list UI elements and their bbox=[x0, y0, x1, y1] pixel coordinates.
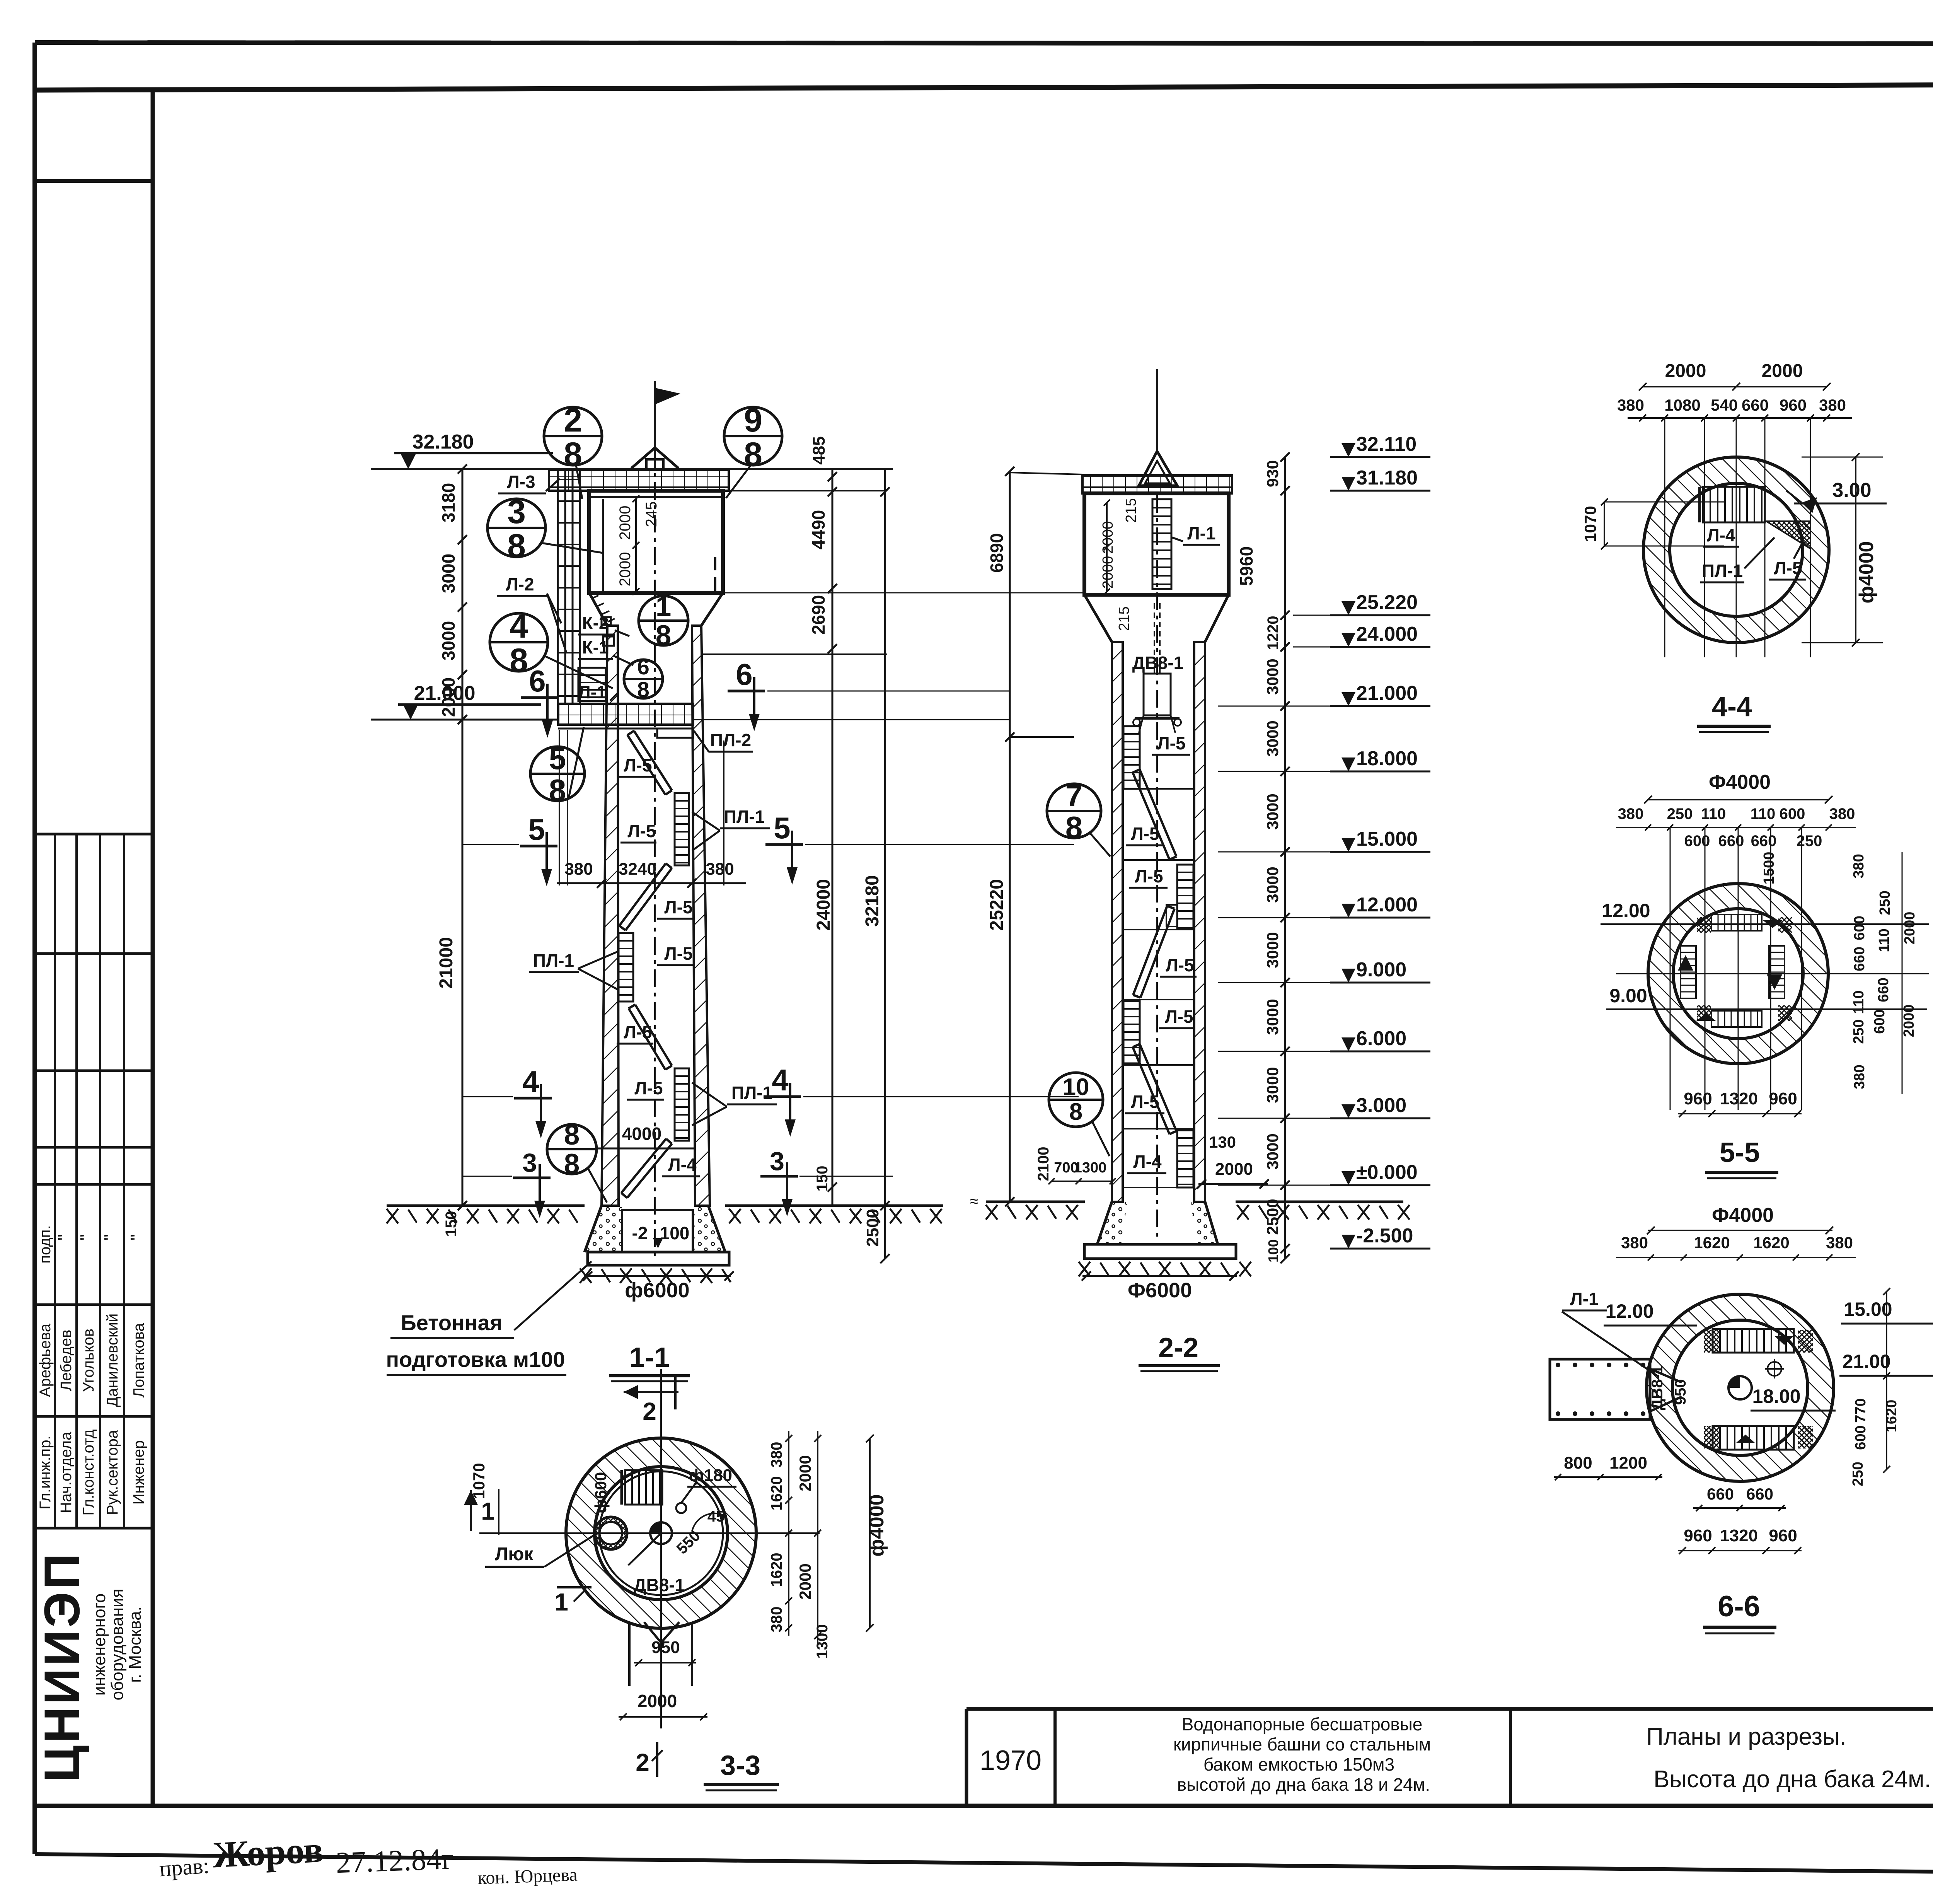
svg-text:25.220: 25.220 bbox=[1356, 591, 1418, 614]
svg-text:6890: 6890 bbox=[987, 533, 1007, 573]
svg-text:1300: 1300 bbox=[1074, 1160, 1107, 1176]
svg-text:930: 930 bbox=[1263, 460, 1282, 487]
svg-text:Л-5: Л-5 bbox=[1157, 733, 1185, 753]
svg-text:Ф4000: Ф4000 bbox=[1712, 1204, 1774, 1227]
svg-text:3.000: 3.000 bbox=[1356, 1094, 1406, 1117]
svg-text:32.180: 32.180 bbox=[412, 431, 474, 453]
svg-text:2000: 2000 bbox=[1215, 1160, 1253, 1179]
svg-text:1320: 1320 bbox=[1720, 1526, 1758, 1545]
svg-text:600: 600 bbox=[1780, 805, 1805, 822]
svg-text:±0.000: ±0.000 bbox=[1356, 1161, 1418, 1184]
svg-text:Л-2: Л-2 bbox=[506, 574, 534, 594]
svg-text:Л-5: Л-5 bbox=[624, 1022, 652, 1042]
svg-text:8: 8 bbox=[656, 620, 672, 651]
svg-text:215: 215 bbox=[1123, 498, 1139, 522]
svg-text:1: 1 bbox=[554, 1588, 568, 1616]
svg-text:660: 660 bbox=[1707, 1485, 1734, 1503]
svg-text:32.110: 32.110 bbox=[1356, 433, 1417, 456]
svg-text:1070: 1070 bbox=[1581, 506, 1599, 542]
svg-text:6: 6 bbox=[529, 664, 545, 698]
svg-text:Л-5: Л-5 bbox=[1131, 1092, 1159, 1112]
svg-text:1080: 1080 bbox=[1664, 396, 1700, 414]
svg-text:2000: 2000 bbox=[796, 1563, 814, 1599]
svg-text:": " bbox=[77, 1234, 97, 1240]
svg-text:3.00: 3.00 bbox=[1832, 479, 1871, 502]
svg-text:215: 215 bbox=[1116, 606, 1132, 631]
svg-text:ПЛ-1: ПЛ-1 bbox=[533, 950, 574, 971]
svg-text:24000: 24000 bbox=[813, 879, 834, 930]
svg-text:Гл.инж.пр.: Гл.инж.пр. bbox=[37, 1435, 54, 1509]
svg-text:2000: 2000 bbox=[617, 552, 634, 587]
svg-text:Л-4: Л-4 bbox=[1707, 525, 1735, 545]
svg-text:250: 250 bbox=[1877, 891, 1893, 915]
svg-text:2000: 2000 bbox=[438, 677, 459, 717]
svg-text:Ф6000: Ф6000 bbox=[1128, 1279, 1192, 1302]
svg-text:": " bbox=[127, 1234, 147, 1240]
svg-text:кон. Юрцева: кон. Юрцева bbox=[477, 1865, 578, 1889]
svg-text:600: 600 bbox=[1851, 916, 1868, 940]
svg-text:1500: 1500 bbox=[1761, 852, 1777, 885]
svg-text:6-6: 6-6 bbox=[1718, 1590, 1760, 1623]
svg-text:3000: 3000 bbox=[438, 554, 459, 593]
svg-text:25220: 25220 bbox=[987, 879, 1007, 930]
svg-text:3000: 3000 bbox=[438, 621, 459, 660]
svg-text:Планы и разрезы.: Планы и разрезы. bbox=[1646, 1723, 1846, 1750]
svg-text:24.000: 24.000 bbox=[1356, 623, 1418, 645]
svg-text:8: 8 bbox=[1069, 1099, 1082, 1125]
svg-text:кирпичные башни со стальным: кирпичные башни со стальным bbox=[1173, 1734, 1431, 1754]
svg-text:3000: 3000 bbox=[1263, 1067, 1282, 1103]
svg-text:7: 7 bbox=[1065, 778, 1083, 813]
svg-text:Водонапорные бесшатровые: Водонапорные бесшатровые bbox=[1182, 1714, 1423, 1734]
svg-text:1320: 1320 bbox=[1720, 1089, 1758, 1108]
svg-text:-2: -2 bbox=[632, 1223, 648, 1243]
svg-text:8: 8 bbox=[564, 1119, 580, 1151]
svg-text:3000: 3000 bbox=[1263, 659, 1282, 694]
svg-text:21.00: 21.00 bbox=[1842, 1351, 1890, 1372]
svg-text:1620: 1620 bbox=[1694, 1234, 1730, 1252]
svg-text:250: 250 bbox=[1851, 1019, 1867, 1044]
svg-text:1220: 1220 bbox=[1265, 616, 1282, 650]
svg-text:прав:: прав: bbox=[159, 1853, 210, 1882]
svg-text:250: 250 bbox=[1797, 833, 1822, 850]
svg-text:12.000: 12.000 bbox=[1356, 894, 1418, 916]
svg-text:≈: ≈ bbox=[970, 1193, 978, 1210]
svg-text:660: 660 bbox=[1746, 1485, 1773, 1503]
svg-text:770: 770 bbox=[1853, 1398, 1869, 1423]
svg-text:960: 960 bbox=[1684, 1526, 1712, 1545]
svg-text:9: 9 bbox=[744, 402, 762, 439]
svg-text:245: 245 bbox=[643, 502, 660, 527]
svg-text:380: 380 bbox=[1617, 396, 1644, 414]
svg-text:ПЛ-1: ПЛ-1 bbox=[724, 807, 765, 827]
svg-text:2: 2 bbox=[636, 1749, 649, 1776]
svg-text:380: 380 bbox=[1851, 854, 1867, 878]
svg-text:1300: 1300 bbox=[814, 1624, 831, 1659]
svg-text:960: 960 bbox=[1684, 1089, 1712, 1108]
svg-text:6.000: 6.000 bbox=[1356, 1027, 1406, 1050]
svg-text:Жоров: Жоров bbox=[211, 1829, 324, 1876]
svg-text:ДВ8-1: ДВ8-1 bbox=[1132, 653, 1183, 673]
svg-text:5: 5 bbox=[549, 741, 566, 776]
svg-text:18.00: 18.00 bbox=[1752, 1385, 1800, 1407]
svg-text:8: 8 bbox=[564, 436, 582, 473]
svg-text:380: 380 bbox=[1851, 1065, 1868, 1089]
svg-text:Л-4: Л-4 bbox=[668, 1155, 697, 1175]
svg-text:4: 4 bbox=[522, 1065, 539, 1099]
svg-text:ф4000: ф4000 bbox=[866, 1494, 888, 1556]
svg-text:3000: 3000 bbox=[1263, 793, 1282, 829]
svg-text:380: 380 bbox=[768, 1607, 785, 1633]
svg-text:4: 4 bbox=[510, 608, 528, 645]
svg-text:Л-5: Л-5 bbox=[627, 821, 656, 841]
svg-text:100: 100 bbox=[660, 1223, 690, 1243]
svg-text:Л-1: Л-1 bbox=[1187, 523, 1215, 543]
svg-text:ПЛ-2: ПЛ-2 bbox=[710, 730, 751, 750]
svg-text:2: 2 bbox=[643, 1397, 656, 1425]
svg-text:3180: 3180 bbox=[438, 483, 459, 522]
svg-text:12.00: 12.00 bbox=[1602, 900, 1650, 921]
svg-text:2000: 2000 bbox=[1665, 361, 1706, 381]
svg-text:Рук.сектора: Рук.сектора bbox=[104, 1430, 121, 1515]
svg-text:3: 3 bbox=[770, 1146, 784, 1176]
svg-text:6: 6 bbox=[637, 655, 649, 679]
svg-text:Л-5: Л-5 bbox=[1165, 1007, 1193, 1027]
svg-text:10: 10 bbox=[1063, 1074, 1089, 1100]
svg-text:Л-5: Л-5 bbox=[1774, 558, 1802, 578]
svg-text:110: 110 bbox=[1851, 990, 1867, 1014]
svg-text:Высота до дна бака 24м.: Высота до дна бака 24м. bbox=[1653, 1766, 1931, 1793]
svg-text:1620: 1620 bbox=[1884, 1400, 1900, 1433]
svg-text:Л-5: Л-5 bbox=[624, 755, 652, 775]
svg-text:2000: 2000 bbox=[1762, 361, 1803, 381]
svg-text:1: 1 bbox=[481, 1497, 495, 1525]
svg-text:5-5: 5-5 bbox=[1720, 1137, 1760, 1168]
svg-text:660: 660 bbox=[1875, 978, 1892, 1002]
svg-text:960: 960 bbox=[1780, 396, 1807, 414]
svg-text:1970: 1970 bbox=[980, 1745, 1042, 1776]
svg-text:подп.: подп. bbox=[37, 1225, 54, 1263]
svg-text:Ф4000: Ф4000 bbox=[1709, 771, 1771, 793]
svg-text:подготовка м100: подготовка м100 bbox=[386, 1347, 565, 1372]
svg-text:баком емкостью 150м3: баком емкостью 150м3 bbox=[1203, 1754, 1394, 1774]
svg-text:27.12.84г: 27.12.84г bbox=[335, 1842, 454, 1880]
svg-text:оборудования: оборудования bbox=[108, 1589, 127, 1701]
svg-text:2000: 2000 bbox=[638, 1691, 677, 1711]
svg-text:660: 660 bbox=[1751, 833, 1777, 850]
svg-text:2000: 2000 bbox=[1100, 521, 1116, 554]
svg-text:": " bbox=[54, 1234, 74, 1240]
svg-text:8: 8 bbox=[507, 527, 526, 565]
svg-text:600: 600 bbox=[1684, 833, 1710, 850]
svg-text:8: 8 bbox=[637, 677, 649, 702]
svg-text:380: 380 bbox=[564, 860, 593, 879]
svg-text:3000: 3000 bbox=[1263, 867, 1282, 903]
svg-text:8: 8 bbox=[564, 1148, 580, 1180]
svg-text:380: 380 bbox=[1819, 396, 1846, 414]
svg-text:5: 5 bbox=[774, 811, 790, 845]
svg-text:3000: 3000 bbox=[1263, 720, 1282, 756]
svg-text:6: 6 bbox=[736, 657, 752, 691]
svg-text:Л-4: Л-4 bbox=[1133, 1152, 1162, 1172]
svg-text:660: 660 bbox=[1718, 833, 1744, 850]
svg-text:2000: 2000 bbox=[617, 506, 634, 540]
svg-text:Инженер: Инженер bbox=[130, 1440, 147, 1505]
svg-text:2690: 2690 bbox=[808, 595, 828, 635]
svg-text:1070: 1070 bbox=[470, 1463, 488, 1499]
svg-text:Люк: Люк bbox=[495, 1544, 534, 1564]
svg-text:Арефьева: Арефьева bbox=[37, 1323, 54, 1397]
svg-text:г. Москва.: г. Москва. bbox=[126, 1606, 145, 1683]
svg-text:Л-1: Л-1 bbox=[1570, 1289, 1598, 1309]
svg-text:8: 8 bbox=[1065, 810, 1083, 845]
svg-text:3: 3 bbox=[507, 493, 526, 531]
svg-text:3000: 3000 bbox=[1263, 999, 1282, 1035]
svg-text:Нач.отдела: Нач.отдела bbox=[58, 1431, 75, 1513]
svg-text:100: 100 bbox=[1265, 1239, 1281, 1263]
svg-text:380: 380 bbox=[768, 1442, 785, 1468]
svg-text:45: 45 bbox=[707, 1508, 725, 1525]
svg-text:Гл.конст.отд: Гл.конст.отд bbox=[80, 1430, 97, 1516]
svg-text:ф6000: ф6000 bbox=[625, 1279, 689, 1302]
svg-text:2000: 2000 bbox=[1901, 1005, 1917, 1037]
svg-text:2000: 2000 bbox=[796, 1455, 814, 1491]
svg-text:4490: 4490 bbox=[808, 510, 828, 549]
svg-text:5960: 5960 bbox=[1236, 546, 1256, 586]
svg-text:ф180: ф180 bbox=[689, 1466, 732, 1485]
svg-text:Л-5: Л-5 bbox=[664, 897, 692, 917]
svg-text:1620: 1620 bbox=[768, 1476, 785, 1511]
svg-text:3240: 3240 bbox=[619, 860, 656, 879]
svg-text:Л-3: Л-3 bbox=[507, 472, 535, 492]
svg-text:250: 250 bbox=[1667, 805, 1693, 822]
svg-text:660: 660 bbox=[1851, 947, 1868, 971]
svg-text:1620: 1620 bbox=[1753, 1234, 1789, 1252]
svg-text:1-1: 1-1 bbox=[629, 1342, 670, 1373]
svg-text:31.180: 31.180 bbox=[1356, 467, 1418, 489]
svg-text:9.000: 9.000 bbox=[1356, 959, 1406, 981]
svg-text:12.00: 12.00 bbox=[1605, 1300, 1653, 1322]
svg-text:ДВ8-1: ДВ8-1 bbox=[634, 1575, 685, 1595]
svg-text:800: 800 bbox=[1564, 1454, 1592, 1472]
svg-text:4-4: 4-4 bbox=[1712, 691, 1752, 722]
svg-text:Л-5: Л-5 bbox=[1166, 955, 1194, 975]
svg-text:5: 5 bbox=[528, 812, 545, 846]
svg-text:485: 485 bbox=[810, 436, 828, 464]
svg-text:Лебедев: Лебедев bbox=[58, 1330, 75, 1391]
svg-text:15.00: 15.00 bbox=[1844, 1298, 1892, 1320]
svg-text:3000: 3000 bbox=[1263, 932, 1282, 968]
svg-text:ф4000: ф4000 bbox=[1855, 541, 1878, 603]
svg-text:высотой до дна бака 18 и 24м.: высотой до дна бака 18 и 24м. bbox=[1177, 1774, 1430, 1795]
svg-text:4: 4 bbox=[772, 1063, 788, 1097]
svg-text:3-3: 3-3 bbox=[720, 1750, 760, 1781]
svg-text:": " bbox=[101, 1234, 121, 1240]
svg-text:960: 960 bbox=[1769, 1526, 1797, 1545]
svg-text:380: 380 bbox=[1621, 1234, 1648, 1252]
svg-text:110: 110 bbox=[1876, 928, 1892, 952]
svg-text:130: 130 bbox=[1209, 1133, 1236, 1151]
svg-text:4000: 4000 bbox=[622, 1124, 661, 1144]
svg-text:К-2: К-2 bbox=[582, 613, 609, 633]
svg-text:380: 380 bbox=[1829, 805, 1855, 822]
svg-text:380: 380 bbox=[1618, 805, 1644, 822]
svg-text:600: 600 bbox=[1872, 1009, 1888, 1034]
svg-text:3: 3 bbox=[522, 1148, 537, 1177]
svg-text:380: 380 bbox=[706, 860, 734, 879]
svg-text:ЦНИИЭП: ЦНИИЭП bbox=[34, 1551, 90, 1782]
svg-text:Л-1: Л-1 bbox=[578, 682, 606, 702]
svg-text:2000: 2000 bbox=[1902, 912, 1918, 945]
svg-text:110: 110 bbox=[1701, 805, 1726, 822]
svg-text:Угольков: Угольков bbox=[80, 1329, 97, 1392]
svg-text:540: 540 bbox=[1711, 396, 1738, 414]
svg-text:660: 660 bbox=[1742, 396, 1769, 414]
svg-text:К-1: К-1 bbox=[582, 637, 609, 657]
svg-text:8: 8 bbox=[744, 436, 762, 473]
svg-text:21000: 21000 bbox=[436, 937, 457, 988]
svg-text:2000: 2000 bbox=[1100, 556, 1116, 589]
svg-text:2-2: 2-2 bbox=[1158, 1332, 1198, 1363]
svg-text:950: 950 bbox=[651, 1638, 680, 1657]
svg-text:21.000: 21.000 bbox=[1356, 682, 1418, 705]
svg-text:8: 8 bbox=[510, 642, 528, 679]
svg-text:9.00: 9.00 bbox=[1609, 985, 1647, 1007]
svg-text:2: 2 bbox=[564, 402, 582, 439]
svg-text:600: 600 bbox=[1853, 1425, 1869, 1450]
svg-text:2100: 2100 bbox=[1035, 1147, 1052, 1181]
svg-text:-2.500: -2.500 bbox=[1356, 1225, 1413, 1247]
svg-text:1: 1 bbox=[656, 591, 672, 622]
svg-text:3000: 3000 bbox=[1263, 1133, 1282, 1169]
svg-text:18.000: 18.000 bbox=[1356, 747, 1418, 770]
svg-text:1200: 1200 bbox=[1609, 1454, 1647, 1472]
svg-text:150: 150 bbox=[814, 1166, 831, 1192]
svg-text:инженерного: инженерного bbox=[90, 1593, 109, 1696]
svg-text:ф600: ф600 bbox=[591, 1472, 610, 1513]
svg-text:380: 380 bbox=[1826, 1234, 1853, 1252]
svg-text:Л-5: Л-5 bbox=[1131, 824, 1159, 844]
svg-text:960: 960 bbox=[1769, 1089, 1797, 1108]
svg-text:Данилевский: Данилевский bbox=[104, 1314, 121, 1407]
svg-text:250: 250 bbox=[1850, 1462, 1866, 1486]
svg-text:1620: 1620 bbox=[768, 1553, 785, 1587]
svg-text:Л-5: Л-5 bbox=[1135, 866, 1163, 886]
svg-text:110: 110 bbox=[1751, 805, 1776, 822]
svg-text:Бетонная: Бетонная bbox=[401, 1310, 502, 1335]
svg-text:15.000: 15.000 bbox=[1356, 828, 1418, 850]
svg-text:950: 950 bbox=[1672, 1379, 1689, 1405]
svg-text:32180: 32180 bbox=[862, 875, 883, 926]
svg-text:8: 8 bbox=[549, 773, 566, 807]
svg-text:Лопаткова: Лопаткова bbox=[130, 1323, 147, 1398]
svg-text:ПЛ-1: ПЛ-1 bbox=[731, 1083, 772, 1103]
svg-text:Л-5: Л-5 bbox=[634, 1078, 663, 1098]
svg-text:2500: 2500 bbox=[863, 1209, 882, 1247]
svg-text:Л-5: Л-5 bbox=[664, 943, 692, 964]
